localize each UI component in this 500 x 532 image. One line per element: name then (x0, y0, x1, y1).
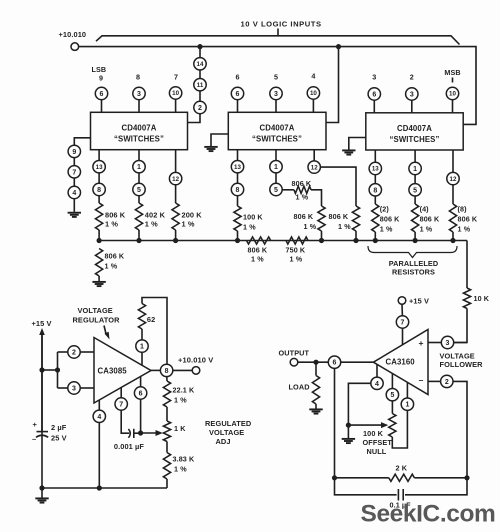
wire pin8-R11 (374, 196, 376, 204)
op-amp U5 CA3160 (373, 330, 428, 395)
pin 8 of U2 (231, 183, 243, 195)
svg-text:806 K: 806 K (292, 179, 312, 188)
resistor R15 62 (138, 304, 145, 330)
wire pin7-pin4 (73, 178, 75, 187)
resistor R19 LOAD (312, 376, 319, 405)
wire pin10-U2 (312, 99, 314, 112)
wire pin9-pin7 (73, 157, 75, 165)
pin 12 of U1 (169, 172, 181, 184)
wire pin10-U3 (452, 100, 454, 113)
svg-text:VOLTAGE: VOLTAGE (78, 306, 113, 315)
svg-text:7: 7 (401, 320, 405, 327)
svg-text:8: 8 (165, 368, 169, 375)
wire R18 to rail (166, 479, 168, 488)
resistor R14 10K (463, 288, 470, 309)
node offset null junction (346, 423, 351, 428)
svg-text:12: 12 (311, 164, 318, 171)
wire R8 to R9 (311, 190, 322, 206)
wire pin4-ground (73, 199, 75, 212)
svg-text:8: 8 (136, 73, 140, 82)
pin 13 of U3 (369, 162, 381, 174)
wire R16-R17 (166, 407, 168, 421)
node input bar junction (55, 367, 60, 372)
wire regulator ground rail (42, 487, 167, 489)
svg-text:RESISTORS: RESISTORS (392, 268, 435, 277)
wire rail to ground (41, 488, 43, 498)
wire pin12-R3 (175, 185, 177, 203)
svg-text:3: 3 (137, 91, 141, 98)
svg-text:1 %: 1 % (145, 220, 158, 229)
svg-text:(4): (4) (420, 205, 430, 214)
wire pin13-pin8 U3 (374, 175, 376, 184)
pin 5 of U1 (133, 183, 145, 195)
svg-text:1 %: 1 % (174, 396, 187, 405)
resistor R9 806K (318, 206, 325, 231)
node pin6-rail (332, 475, 337, 480)
svg-text:8: 8 (236, 187, 240, 194)
wire U2 to pin13 (237, 150, 239, 161)
svg-text:2: 2 (410, 73, 414, 82)
pin 5 of U3 (409, 184, 421, 196)
terminal OUTPUT (290, 358, 298, 366)
pin 6 of U5 (328, 356, 340, 368)
arrow +15V rail (39, 328, 45, 335)
svg-text:+15 V: +15 V (409, 297, 429, 306)
wire pin8-R7 (237, 196, 239, 207)
terminal +10.010 V (192, 367, 200, 375)
svg-text:SeekIC.com: SeekIC.com (361, 501, 496, 528)
svg-text:10: 10 (449, 91, 456, 98)
svg-text:CD4007A: CD4007A (122, 124, 157, 133)
wire R2-bus (138, 230, 140, 241)
wire U5 edge to pin1 (406, 382, 408, 398)
resistor R3 200K (172, 203, 179, 230)
pin 2 of U5 (441, 375, 453, 387)
resistor R2 402K (135, 203, 142, 230)
resistor R12 (4)806K (412, 204, 419, 232)
ground below R4 (92, 281, 105, 283)
ground U3 substrate (342, 149, 355, 151)
wire R7-bus (237, 231, 239, 241)
pin 1 of U1 (133, 161, 145, 173)
wire rail-input bar (42, 369, 58, 371)
wire R13-bus (452, 232, 454, 241)
wire R1-bus (98, 230, 100, 241)
svg-text:1 %: 1 % (174, 465, 187, 474)
svg-text:5: 5 (390, 392, 394, 399)
resistor R21 2K (389, 474, 415, 481)
pin 3 of U1 (133, 87, 145, 99)
svg-text:5: 5 (274, 73, 278, 82)
node rail-cap (39, 485, 44, 490)
wire pin2 to feedback (453, 381, 467, 477)
resistor R8 806K horizontal (294, 186, 311, 193)
wire pin3-U3 (411, 100, 413, 113)
pin 7 of U4 (115, 398, 127, 410)
svg-text:3: 3 (410, 92, 414, 99)
wire U1 left to pin9 (74, 138, 90, 146)
wire pin1-R15 (141, 329, 143, 340)
svg-text:+15 V: +15 V (32, 319, 52, 328)
pin 11 of U1 (194, 79, 206, 91)
svg-text:10: 10 (310, 90, 317, 97)
wire pin6 to output (298, 361, 329, 363)
wire U5 edge to pin4 (376, 364, 378, 377)
svg-text:1 %: 1 % (296, 193, 309, 202)
pin 4 of U4 (93, 410, 105, 422)
svg-text:1: 1 (137, 164, 141, 171)
pin 6 of U1 (95, 87, 107, 99)
capacitor C1 2uF (41, 333, 43, 432)
wire U2 left to ground (211, 134, 228, 146)
wire U5 minus to pin2 (428, 380, 441, 382)
wire U3 to pin1 (414, 150, 416, 163)
pin 1 of U3 (409, 162, 421, 174)
wire U5 apex to pin6 (341, 361, 374, 363)
pin 6 of U3 (368, 88, 380, 100)
svg-text:1 %: 1 % (105, 220, 118, 229)
pin 3 of U2 (270, 87, 282, 99)
wire R14 to pin3 U5 (454, 309, 468, 343)
svg-text:CA3085: CA3085 (98, 367, 128, 376)
wire U3 left to ground (349, 138, 366, 150)
pin 2 of U4 (68, 346, 80, 358)
pin 13 of U1 (93, 161, 105, 173)
svg-text:2: 2 (445, 379, 449, 386)
svg-text:2: 2 (72, 350, 76, 357)
resistor R13 (8)806K (449, 204, 456, 232)
node bus R3 (173, 238, 178, 243)
svg-text:“SWITCHES”: “SWITCHES” (114, 135, 164, 144)
node rail to amp inputs (39, 367, 44, 372)
wire terminal to pin7 U5 (401, 304, 403, 316)
wire R20 to pin1 (392, 410, 407, 448)
svg-text:10 V LOGIC INPUTS: 10 V LOGIC INPUTS (241, 19, 322, 28)
wire pin5-R2 (138, 196, 140, 203)
svg-text:3: 3 (446, 340, 450, 347)
node bus R9 (319, 238, 324, 243)
capacitor C2 0.001uF (128, 429, 130, 438)
svg-text:CA3160: CA3160 (386, 358, 416, 367)
svg-text:10 K: 10 K (474, 294, 490, 303)
wire U3 to pin13 (374, 150, 376, 163)
pin 4 of U1 (68, 186, 80, 198)
svg-text:200 K: 200 K (182, 211, 203, 220)
wire bus to U2 (326, 47, 339, 123)
node bus R10 (353, 238, 358, 243)
pin 5 of U5 (386, 389, 398, 401)
svg-text:4: 4 (97, 414, 101, 421)
svg-text:6: 6 (236, 91, 240, 98)
pin 6 of U4 (134, 387, 146, 399)
ground U1 substrate (68, 212, 81, 214)
wire pin5-R12 (414, 196, 416, 204)
wire load top (315, 362, 317, 375)
wire U4 edge to pin7 (120, 387, 122, 398)
node bus R1 (97, 238, 102, 243)
svg-text:1 %: 1 % (182, 220, 195, 229)
svg-text:2: 2 (198, 105, 202, 112)
svg-text:806 K: 806 K (458, 215, 478, 224)
ground offset null (342, 438, 355, 440)
potentiometer R20 100K offset (389, 414, 396, 438)
wire pin2-U4 (80, 351, 94, 353)
wire pin13-pin8 (98, 173, 100, 184)
pin 3 of U3 (406, 88, 418, 100)
terminal +10.010 input (71, 43, 79, 51)
wiper arrow to R17 (141, 432, 158, 434)
pin 2 of U1 (194, 101, 206, 113)
svg-text:ADJ: ADJ (216, 437, 231, 446)
arrow to U4 (104, 326, 106, 336)
svg-text:402 K: 402 K (145, 211, 166, 220)
node bus R11 (373, 238, 378, 243)
wire R4-ground (98, 276, 100, 281)
svg-text:1 %: 1 % (420, 225, 433, 234)
svg-text:–: – (419, 375, 424, 385)
wire label pointer tick (277, 29, 279, 36)
brace paralleled resistors (368, 246, 457, 258)
svg-text:806 K: 806 K (105, 211, 126, 220)
resistor R4 806K to ground (96, 249, 103, 277)
wire pin11-pin2 (199, 91, 201, 102)
wire pin14-pin11 (199, 70, 201, 79)
svg-text:1 %: 1 % (304, 222, 317, 231)
svg-text:806 K: 806 K (329, 212, 349, 221)
resistor R16 22.1K (163, 381, 170, 407)
svg-text:REGULATOR: REGULATOR (73, 316, 121, 325)
pin 10 of U2 (307, 87, 319, 99)
svg-text:100 K: 100 K (363, 429, 384, 438)
svg-text:+: + (418, 338, 423, 348)
wire pin12 to R10 (320, 167, 356, 206)
wire summing bus (99, 240, 467, 242)
svg-text:NULL: NULL (367, 447, 387, 456)
wire U1 to pin12 (175, 150, 177, 173)
wire U2 to pin1 (275, 150, 277, 161)
svg-text:4: 4 (311, 72, 315, 81)
svg-text:(8): (8) (458, 205, 468, 214)
svg-text:13: 13 (234, 164, 241, 171)
svg-text:1 %: 1 % (458, 225, 471, 234)
wire U5 edge to pin5 (391, 374, 393, 389)
pin 4 of U5 (371, 377, 383, 389)
svg-text:3: 3 (372, 73, 376, 82)
potentiometer R17 1K (163, 421, 170, 442)
wire main +10.010 bus (79, 47, 476, 125)
svg-text:13: 13 (96, 164, 103, 171)
wire rail right segment (414, 477, 467, 479)
svg-text:(2): (2) (380, 205, 390, 214)
svg-text:+10.010: +10.010 (59, 30, 87, 39)
resistor R11 (2)806K (372, 204, 379, 232)
wire U5 plus to pin3 (428, 342, 442, 344)
svg-text:12: 12 (450, 176, 457, 183)
svg-text:13: 13 (372, 166, 379, 173)
svg-text:CD4007A: CD4007A (260, 124, 295, 133)
wire U4 edge to pin4 (98, 400, 100, 411)
node bus R13 (450, 238, 455, 243)
pin 12 of U2 (308, 161, 320, 173)
svg-text:4: 4 (72, 190, 76, 197)
wire pin3-U4 (80, 387, 94, 389)
svg-text:806 K: 806 K (105, 252, 125, 261)
wire pin1-pin5 U3 (414, 175, 416, 184)
svg-text:8: 8 (373, 187, 377, 194)
svg-text:806 K: 806 K (420, 215, 440, 224)
svg-text:9: 9 (99, 74, 103, 83)
svg-text:3: 3 (72, 386, 76, 393)
svg-text:806 K: 806 K (248, 246, 268, 255)
wire pin8 down to R16 (166, 376, 168, 381)
pin 8 of U1 (93, 183, 105, 195)
svg-text:“SWITCHES”: “SWITCHES” (390, 135, 440, 144)
svg-text:9: 9 (72, 149, 76, 156)
op-amp U4 CA3085 (94, 338, 151, 404)
wire pin5-R8 (282, 189, 294, 191)
svg-text:MSB: MSB (444, 68, 460, 77)
wire rail left segment (335, 477, 389, 479)
svg-text:1: 1 (413, 166, 417, 173)
svg-text:806 K: 806 K (380, 215, 400, 224)
svg-text:1 %: 1 % (290, 255, 303, 264)
resistor R18 3.83K (163, 453, 170, 480)
wire pin1-pin5 U2 (275, 173, 277, 184)
resistor R1 806K (96, 203, 103, 230)
svg-text:22.1 K: 22.1 K (173, 386, 195, 395)
svg-text:+10.010 V: +10.010 V (178, 356, 213, 365)
svg-text:4: 4 (375, 381, 379, 388)
pin 1 of U2 (270, 161, 282, 173)
svg-text:FOLLOWER: FOLLOWER (440, 360, 484, 369)
svg-text:750 K: 750 K (286, 246, 306, 255)
pin 8 of U4 (160, 364, 172, 376)
svg-text:806 K: 806 K (294, 212, 314, 221)
pin 1 of U5 (401, 398, 413, 410)
wire U4 edge to pin1 (141, 352, 143, 365)
wire pin7 to C2 (121, 410, 129, 433)
pin 1 of U4 (136, 340, 148, 352)
svg-text:0.001 µF: 0.001 µF (114, 442, 145, 451)
wire pin7-U5 edge (402, 328, 404, 345)
wire pin3 to R14 (454, 342, 468, 344)
pin 8 of U3 (369, 184, 381, 196)
wire bus to R14 (466, 241, 468, 289)
svg-text:7: 7 (72, 169, 76, 176)
svg-text:2 K: 2 K (396, 464, 408, 473)
svg-text:LOAD: LOAD (289, 383, 310, 392)
svg-text:OFFSET: OFFSET (363, 438, 393, 447)
svg-text:2 µF: 2 µF (51, 423, 67, 432)
wire pin8 to terminal (173, 369, 193, 371)
svg-text:7: 7 (119, 402, 123, 409)
svg-text:6: 6 (100, 91, 104, 98)
node bus R12 (413, 238, 418, 243)
U2 CD4007A switches box (228, 112, 326, 149)
wire pin6-U3 (373, 100, 375, 113)
svg-text:25 V: 25 V (51, 434, 67, 443)
wire pin4 to rail (98, 422, 100, 488)
wire U1 to pin13 (98, 150, 100, 161)
node bus R7 (235, 238, 240, 243)
wire pin2 to U1 box (188, 114, 201, 123)
svg-text:1 %: 1 % (380, 225, 393, 234)
pin 14 of U1 (194, 58, 206, 70)
svg-text:6: 6 (333, 360, 337, 367)
svg-text:1 %: 1 % (251, 255, 264, 264)
pin 3 of U4 (68, 382, 80, 394)
U3 CD4007A switches box (366, 113, 463, 150)
ground regulator rail (35, 497, 48, 499)
wire bus to pin 14 (199, 47, 201, 58)
wire to offset ground (347, 425, 349, 438)
resistor R7 100K (234, 206, 241, 231)
wire R11-bus (374, 232, 376, 241)
wire U1 to pin1 (138, 150, 140, 161)
svg-text:1: 1 (274, 164, 278, 171)
svg-text:1 %: 1 % (243, 223, 256, 232)
svg-text:1 %: 1 % (338, 222, 351, 231)
wire R10-bus (355, 231, 357, 241)
svg-text:“SWITCHES”: “SWITCHES” (252, 135, 302, 144)
wire U2 to pin12 (313, 150, 315, 161)
svg-text:1: 1 (405, 402, 409, 409)
wire pin3-U1 (138, 100, 140, 113)
wire logic inputs line (96, 36, 460, 45)
node bus-box2 junction (336, 44, 341, 49)
wire U3 to pin12 (452, 150, 454, 173)
node pin2-rail (464, 475, 469, 480)
svg-text:3: 3 (274, 91, 278, 98)
pin 7 of U1 (68, 166, 80, 178)
wire pin6 feedback down (334, 368, 336, 478)
pin 10 of U1 (169, 87, 181, 99)
wire load-ground (315, 404, 317, 409)
pin 6 of U2 (231, 87, 243, 99)
capacitor C3 0.1uF (335, 478, 397, 495)
svg-text:3.83 K: 3.83 K (173, 455, 195, 464)
node output-load (313, 360, 318, 365)
wire pin5 to R20 (391, 401, 393, 414)
svg-text:5: 5 (137, 187, 141, 194)
svg-text:100 K: 100 K (243, 213, 263, 222)
node rail-pin4 (97, 485, 102, 490)
pin 3 of U5 (441, 336, 453, 348)
pin 5 of U2 (270, 183, 282, 195)
ground U2 substrate (204, 146, 217, 148)
terminal +15 V follower (398, 297, 406, 305)
svg-text:1 %: 1 % (105, 262, 118, 271)
wire U4 edge to pin6 (140, 377, 142, 388)
resistor R10 806K (352, 206, 359, 231)
svg-text:VOLTAGE: VOLTAGE (209, 428, 244, 437)
svg-text:12: 12 (172, 176, 179, 183)
node bus-chain junction (197, 44, 202, 49)
wire pin8-R1 (98, 196, 100, 203)
svg-text:10: 10 (172, 90, 179, 97)
ground below load (309, 408, 322, 410)
wire R17-R18 (166, 442, 168, 453)
svg-text:REGULATED: REGULATED (205, 419, 252, 428)
svg-text:–: – (32, 434, 36, 443)
svg-text:11: 11 (197, 82, 204, 89)
wire U4 apex to pin8 (151, 369, 161, 371)
node pin6-C2-wiper (138, 430, 143, 435)
svg-text:1 K: 1 K (174, 424, 186, 433)
wire pin4 to offset ground (348, 383, 371, 425)
svg-text:6: 6 (139, 391, 143, 398)
pin 13 of U2 (231, 161, 243, 173)
